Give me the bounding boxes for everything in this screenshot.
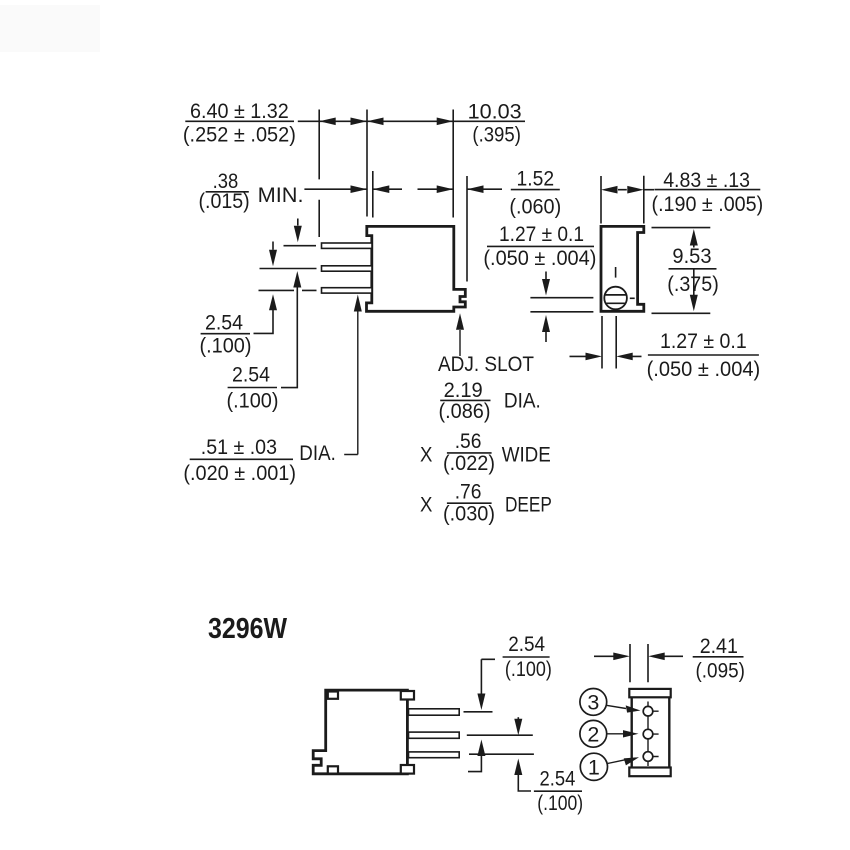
bottom view lead 3	[409, 752, 460, 758]
slot centerline tick (left of front view)	[530, 297, 593, 299]
leader from 3 to top pin	[606, 705, 626, 708]
svg-text:2.41: 2.41	[700, 635, 738, 658]
lead tick line 3	[469, 753, 534, 755]
extension lines for 9.53 dim	[652, 228, 711, 314]
svg-text:MIN.: MIN.	[258, 184, 304, 207]
circled pin number 1	[580, 753, 607, 780]
circled pin number 2	[580, 720, 607, 747]
corner tab top-left	[328, 692, 338, 699]
right view main body	[632, 692, 670, 772]
right view bottom cap	[629, 768, 670, 777]
svg-text:1.27 ± 0.1: 1.27 ± 0.1	[660, 330, 747, 353]
svg-text:.51 ± .03: .51 ± .03	[201, 436, 277, 459]
upper 1.27 dim leader arrows	[545, 272, 547, 281]
svg-text:1.52: 1.52	[517, 168, 555, 191]
arrowheads 10.03 dim	[367, 118, 453, 126]
pin hole side ticks	[653, 711, 659, 756]
svg-text:DIA.: DIA.	[299, 442, 336, 465]
svg-text:WIDE: WIDE	[502, 444, 551, 467]
svg-text:(.252 ± .052): (.252 ± .052)	[183, 124, 296, 147]
extension lines for 2.41 dim	[630, 644, 648, 682]
svg-text:(.100): (.100)	[200, 335, 252, 358]
arrowheads 6.40 dim	[319, 118, 367, 126]
leader from DIA. to pin 3	[344, 308, 358, 455]
leader from top 2.54 to lead1 tick	[481, 659, 495, 694]
svg-text:(.050 ± .004): (.050 ± .004)	[483, 247, 596, 270]
leader from 2 to middle pin	[607, 733, 624, 735]
screw slot chord lines	[605, 295, 626, 303]
upper 2.54 dim arrows (pin2-pin3 pitch ladder)	[272, 242, 274, 250]
svg-text:2.54: 2.54	[508, 633, 545, 656]
leader from 1 to bottom pin	[608, 760, 626, 764]
svg-text:DEEP: DEEP	[505, 494, 552, 517]
svg-text:3296W: 3296W	[208, 613, 288, 645]
dimension line 4.83 with arrows	[618, 189, 654, 191]
corner tab bottom-left	[328, 766, 338, 773]
svg-text:(.395): (.395)	[472, 124, 521, 147]
pin hole 2	[643, 729, 653, 739]
svg-text:(.020 ± .001): (.020 ± .001)	[183, 462, 296, 485]
9.53 down arrow	[693, 269, 695, 295]
bottom view body outline (leads right)	[313, 690, 407, 774]
extension line at body right edge (for 10.03/1.52 dims)	[452, 110, 454, 218]
up arrow to lead2 tick	[468, 756, 481, 772]
svg-text:(.100): (.100)	[227, 390, 279, 413]
screw centerline dash right of circle	[630, 297, 635, 299]
svg-text:10.03: 10.03	[468, 101, 522, 124]
svg-text:4.83 ± .13: 4.83 ± .13	[663, 169, 750, 192]
svg-text:.56: .56	[455, 430, 482, 453]
svg-text:2.54: 2.54	[540, 768, 576, 791]
extension lines above front view (4.83 dim)	[601, 176, 644, 224]
svg-text:(.100): (.100)	[537, 792, 583, 815]
svg-text:ADJ. SLOT: ADJ. SLOT	[438, 353, 534, 376]
pin-pitch tick line 1 (pin1 centerline)	[284, 245, 317, 247]
2.41 dim arrows	[594, 655, 683, 657]
scan smudge top-left	[0, 5, 100, 52]
extension line at body left flange (for 6.40/10.03 dims)	[366, 110, 368, 217]
pin hole 1	[643, 752, 653, 762]
pin 3 (side view bottom lead)	[322, 288, 373, 293]
bottom view lead 2	[409, 732, 460, 738]
svg-text:9.53: 9.53	[672, 245, 711, 268]
lower 1.27 dim arrows	[570, 355, 642, 357]
corner tab top-right	[401, 691, 414, 700]
arrowhead .38 dim	[351, 185, 390, 193]
lead tick line 1	[464, 711, 493, 713]
dimension line row 2 (.38 MIN and 1.52)	[304, 188, 502, 190]
svg-text:(.086): (.086)	[439, 400, 491, 423]
svg-text:DIA.: DIA.	[504, 390, 541, 413]
right view top cap	[629, 689, 670, 697]
circled pin number 3	[580, 689, 607, 716]
svg-text:1.27 ± 0.1: 1.27 ± 0.1	[499, 223, 584, 246]
corner tab bottom-right	[401, 765, 414, 774]
svg-text:2.19: 2.19	[444, 379, 483, 402]
bottom view lead 1	[409, 709, 460, 715]
svg-text:(.190 ± .005): (.190 ± .005)	[652, 193, 764, 216]
leader from ADJ. SLOT to notch	[459, 330, 461, 356]
svg-text:1: 1	[588, 756, 600, 780]
svg-text:(.050 ± .004): (.050 ± .004)	[647, 358, 761, 381]
svg-text:X: X	[420, 494, 432, 517]
extension line at body left edge (for .38 dim)	[372, 171, 374, 218]
svg-text:3: 3	[587, 691, 599, 715]
dimension line row 1 (6.40 and 10.03)	[185, 120, 525, 122]
svg-text:(.375): (.375)	[667, 273, 719, 296]
screw slot circle	[604, 287, 627, 310]
svg-text:.76: .76	[455, 481, 482, 504]
arrowheads 1.52 dim	[437, 185, 484, 193]
svg-text:2.54: 2.54	[205, 312, 243, 335]
body bottom tick (left of front view)	[530, 311, 593, 313]
9.53 up arrow	[690, 229, 698, 246]
svg-text:(.060): (.060)	[509, 196, 561, 219]
pin-pitch tick line 3 (pin3 centerline)	[259, 289, 317, 291]
svg-text:(.030): (.030)	[443, 503, 495, 526]
svg-text:6.40 ± 1.32: 6.40 ± 1.32	[190, 100, 289, 123]
pin 2 (side view middle lead)	[322, 266, 373, 271]
extension line at pin tips (for 6.40 dim)	[318, 110, 320, 238]
svg-text:2.54: 2.54	[232, 364, 270, 387]
screw centerline above circle	[615, 267, 617, 278]
svg-text:(.015): (.015)	[199, 190, 250, 213]
pin-pitch tick line 2 (pin2 centerline)	[260, 268, 317, 270]
svg-text:(.022): (.022)	[443, 452, 495, 475]
extension lines below front view (lower 1.27 dim)	[602, 316, 616, 369]
svg-text:X: X	[420, 444, 432, 467]
svg-text:2: 2	[587, 723, 599, 747]
pin hole 3	[643, 706, 653, 716]
lower 2.54 dim arrows (pin1-pin2 pitch ladder)	[297, 219, 299, 226]
svg-text:(.100): (.100)	[505, 658, 552, 681]
pin centerline vertical	[647, 702, 649, 767]
lead tick line 2	[467, 734, 533, 736]
svg-text:(.095): (.095)	[696, 660, 745, 683]
side view body outline (3296W, leads left)	[367, 226, 466, 311]
extension line at adj-slot notch (for 1.52 dim)	[466, 176, 468, 282]
bottom 2.54 dim arrows	[517, 717, 519, 720]
front view body outline (bracket shape, top right)	[601, 226, 644, 311]
pin 1 (side view top lead)	[322, 243, 373, 248]
